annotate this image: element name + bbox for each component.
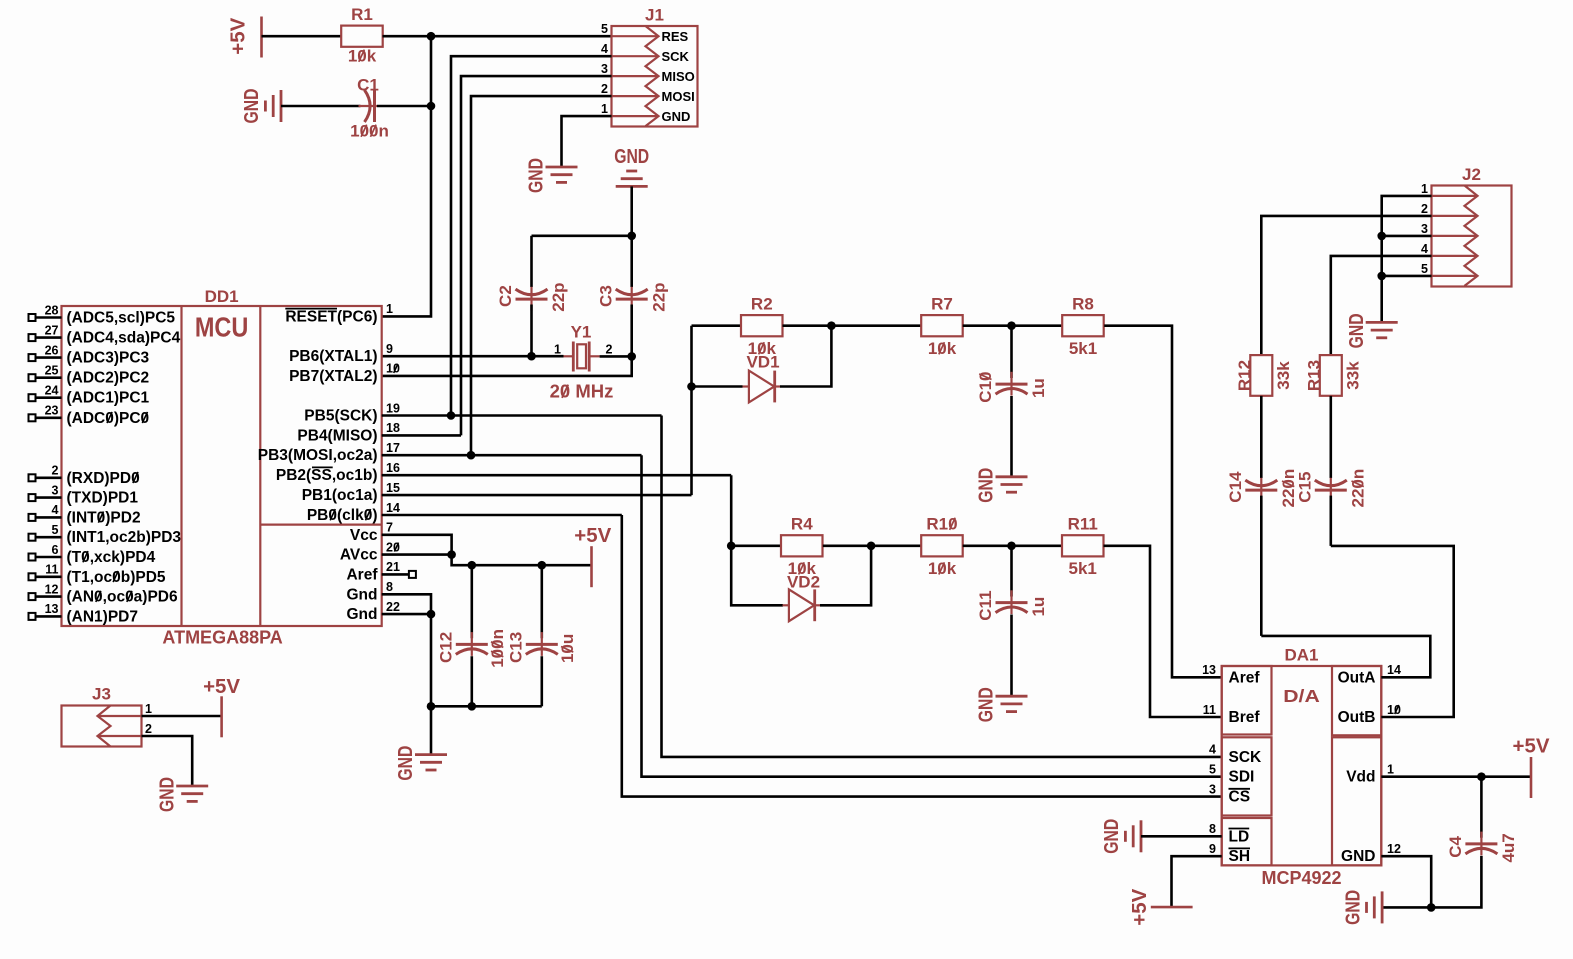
ground GND (LD) (1125, 820, 1141, 852)
svg-text:(AN1)PD7: (AN1)PD7 (67, 608, 138, 625)
svg-text:(T1,oc0b)PD5: (T1,oc0b)PD5 (67, 569, 166, 586)
junction Gnd (427, 610, 436, 619)
svg-text:SDI: SDI (1229, 769, 1255, 786)
svg-text:SH: SH (1229, 848, 1251, 865)
svg-text:R8: R8 (1072, 295, 1094, 314)
svg-text:4: 4 (1421, 242, 1428, 256)
svg-text:D/A: D/A (1283, 686, 1320, 706)
svg-text:C15: C15 (1295, 472, 1314, 503)
junction Y1/C3/XTAL2 (627, 352, 636, 361)
junction C4 (1477, 772, 1486, 781)
svg-text:1u: 1u (1029, 597, 1048, 617)
resistor R11 5k1 (1062, 535, 1104, 556)
junction rail left (427, 702, 436, 711)
capacitor C3 22p (631, 287, 633, 311)
wire OutB to C15 (1331, 546, 1454, 717)
power +5V (R1 input) (260, 17, 263, 58)
wire C12 column top (470, 565, 473, 638)
capacitor C11 1u (1010, 590, 1012, 614)
wire PB1 to R2/VD1 column (690, 326, 693, 495)
svg-text:4u7: 4u7 (1499, 833, 1518, 862)
svg-text:3: 3 (601, 62, 608, 76)
svg-text:GND: GND (156, 777, 178, 812)
diode VD2 (783, 604, 790, 606)
svg-text:GND: GND (976, 687, 998, 722)
wire J2 pin3 (1382, 235, 1432, 238)
ground GND (J1 pin1) (546, 167, 578, 182)
wire C11 bottom (1010, 615, 1013, 697)
svg-text:C1: C1 (357, 76, 379, 95)
wire C15 bottom (1330, 496, 1333, 546)
capacitor C13 10u (541, 632, 543, 656)
power +5V (J3) (220, 696, 223, 737)
resistor R13 33k (1320, 355, 1342, 396)
svg-text:9: 9 (1209, 842, 1216, 856)
junction C11 (1007, 542, 1016, 551)
MCU pin 12 (AN0,oc0a)PD6 stub (36, 595, 62, 598)
wire node to PB7(XTAL2) (382, 356, 632, 376)
wire C1 to RESET column (377, 105, 431, 108)
svg-text:Vcc: Vcc (350, 527, 378, 544)
capacitor C2 22p (530, 287, 532, 311)
wire ground rail (431, 614, 542, 706)
svg-text:(ADC1)PC1: (ADC1)PC1 (67, 390, 150, 407)
svg-text:2: 2 (145, 722, 152, 736)
svg-text:26: 26 (45, 343, 59, 357)
svg-text:C13: C13 (506, 632, 525, 663)
ground GND (J2) (1366, 322, 1398, 337)
svg-text:22: 22 (386, 600, 400, 614)
svg-text:14: 14 (386, 501, 400, 515)
svg-text:(ADC0)PC0: (ADC0)PC0 (67, 410, 150, 427)
wire PB5(SCK) row (382, 414, 662, 417)
svg-text:20 MHz: 20 MHz (550, 381, 614, 402)
svg-text:14: 14 (1387, 663, 1401, 677)
MCU pin 13 (AN1)PD7 stub (36, 615, 62, 618)
power +5V (SH) (1151, 906, 1193, 909)
ground GND (C10) (996, 477, 1028, 492)
resistor R4 10k (781, 535, 823, 556)
svg-text:GND: GND (526, 158, 548, 193)
junction MOSI (467, 451, 476, 460)
wire R8 to DA1 Aref (1104, 326, 1222, 678)
svg-text:GND: GND (976, 468, 998, 503)
svg-text:8: 8 (386, 580, 393, 594)
svg-text:R7: R7 (931, 295, 953, 314)
svg-text:13: 13 (45, 602, 59, 616)
resistor R12 33k (1250, 355, 1272, 396)
svg-text:27: 27 (45, 323, 59, 337)
junction SCK (447, 411, 456, 420)
svg-text:33k: 33k (1344, 361, 1363, 390)
svg-text:4: 4 (1209, 743, 1216, 757)
wire VD2 cathode (820, 546, 871, 606)
svg-text:1: 1 (1387, 763, 1394, 777)
wire PB3(MOSI) row (382, 454, 642, 457)
svg-text:MCP4922: MCP4922 (1261, 868, 1341, 888)
wire J2 pin2 to R12 (1261, 216, 1431, 355)
svg-text:(ADC3)PC3: (ADC3)PC3 (67, 350, 150, 367)
svg-text:1: 1 (1421, 182, 1428, 196)
wire C2 to XTAL1 (530, 305, 533, 357)
junction C12 top (468, 561, 477, 570)
svg-text:100n: 100n (488, 629, 507, 668)
resistor R10 10k (921, 535, 963, 556)
wire C3 to node (630, 305, 633, 357)
svg-text:AVcc: AVcc (340, 547, 378, 564)
svg-text:SCK: SCK (662, 49, 690, 64)
svg-text:+5V: +5V (574, 525, 612, 547)
wire R4 to R10 (823, 544, 922, 547)
svg-text:(AN0,oc0a)PD6: (AN0,oc0a)PD6 (67, 589, 178, 606)
svg-text:R4: R4 (791, 515, 813, 534)
wire R10 to R11 (963, 544, 1062, 547)
svg-text:22p: 22p (649, 282, 668, 311)
svg-text:11: 11 (1203, 703, 1216, 717)
wire J2 pin1/3/5 to ground (1382, 196, 1432, 323)
wire RESET column to MCU pin1 (382, 36, 431, 316)
svg-text:R2: R2 (751, 295, 773, 314)
svg-text:SCK: SCK (1229, 749, 1263, 766)
svg-text:GND: GND (662, 109, 691, 124)
svg-text:GND: GND (1342, 890, 1364, 925)
svg-text:5k1: 5k1 (1069, 559, 1097, 578)
svg-text:Gnd: Gnd (347, 586, 378, 603)
wire J3 pin1 to +5V (142, 715, 222, 718)
svg-text:PB4(MISO): PB4(MISO) (297, 427, 377, 444)
ground GND (J3) (176, 786, 208, 801)
svg-text:Gnd: Gnd (347, 606, 378, 623)
svg-text:(RXD)PD0: (RXD)PD0 (67, 470, 140, 487)
capacitor C14 220n (1260, 478, 1262, 502)
svg-text:MOSI: MOSI (662, 89, 695, 104)
svg-text:Vdd: Vdd (1346, 769, 1375, 786)
svg-text:12: 12 (1387, 842, 1401, 856)
wire R1 to J1 pin5 / node RESET (383, 35, 612, 38)
svg-text:9: 9 (386, 342, 393, 356)
svg-text:R12: R12 (1235, 360, 1254, 391)
svg-text:J3: J3 (92, 685, 111, 704)
wire Gnd pin22 (382, 613, 431, 616)
svg-text:MCU: MCU (195, 311, 249, 342)
svg-text:+5V: +5V (203, 676, 241, 698)
MCU pin 24 (ADC1)PC1 stub (36, 396, 62, 399)
junction pin3 (1377, 232, 1386, 241)
wire PB0(clk0) row (382, 514, 622, 517)
svg-text:GND: GND (395, 746, 417, 781)
wire C4 bottom (1382, 856, 1481, 908)
svg-text:GND: GND (614, 146, 649, 168)
MCU pin 26 (ADC3)PC3 stub (36, 356, 62, 359)
wire Y1 pin2 to C3 (600, 355, 632, 358)
svg-text:OutB: OutB (1338, 709, 1376, 726)
wire R11 to DA1 Bref (1104, 546, 1222, 717)
svg-text:RES: RES (662, 29, 689, 44)
junction C13 top (538, 561, 547, 570)
svg-text:19: 19 (386, 401, 400, 415)
svg-text:PB5(SCK): PB5(SCK) (304, 408, 377, 425)
svg-text:LD: LD (1229, 828, 1250, 845)
svg-text:PB2(SS,oc1b): PB2(SS,oc1b) (276, 467, 378, 484)
wire C11 top (1010, 546, 1013, 597)
svg-text:18: 18 (386, 421, 400, 435)
junction rail/C3 (627, 232, 636, 241)
ground GND (MCU) (415, 755, 447, 770)
svg-text:PB3(MOSI,oc2a): PB3(MOSI,oc2a) (258, 447, 378, 464)
wire PB4(MISO) row (382, 434, 461, 437)
wire Vcc (382, 535, 452, 555)
svg-text:(INT1,oc2b)PD3: (INT1,oc2b)PD3 (67, 529, 182, 546)
pin Aref stub (382, 573, 409, 576)
svg-text:C4: C4 (1446, 835, 1465, 857)
junction C1/RESET (427, 102, 436, 111)
capacitor C1 100n (359, 105, 378, 107)
MCU pin 23 (ADC0)PC0 stub (36, 416, 62, 419)
resistor R2 10k (741, 315, 783, 336)
connector J2 (1432, 186, 1512, 287)
svg-text:C14: C14 (1226, 471, 1245, 503)
junction C10 (1007, 321, 1016, 330)
svg-text:1u: 1u (1029, 378, 1048, 398)
svg-text:GND: GND (241, 89, 263, 124)
wire R2 to R7 (783, 324, 922, 327)
junction R1/RESET (427, 32, 436, 41)
wire PB6(XTAL1) to Y1 pin1 (382, 355, 564, 358)
svg-text:1: 1 (554, 343, 561, 357)
svg-text:GND: GND (1101, 819, 1123, 854)
ground GND (C11) (996, 696, 1028, 711)
wire GND to rail (630, 186, 633, 235)
wire J1 pin1 to ground (562, 116, 612, 167)
capacitor C10 1u (1010, 372, 1012, 396)
wire PB2(SS) row (382, 474, 732, 477)
svg-text:5k1: 5k1 (1069, 339, 1097, 358)
power +5V (Vdd) (1530, 757, 1533, 798)
svg-text:(ADC4,sda)PC4: (ADC4,sda)PC4 (67, 330, 181, 347)
crystal Y1 20 MHz (564, 355, 574, 357)
wire rail to C2 (530, 236, 533, 287)
svg-text:3: 3 (1209, 782, 1216, 796)
MCU pin 27 (ADC4,sda)PC4 stub (36, 336, 62, 339)
svg-text:(ADC2)PC2: (ADC2)PC2 (67, 370, 150, 387)
svg-text:J2: J2 (1462, 165, 1481, 184)
svg-text:22p: 22p (549, 282, 568, 311)
svg-text:+5V: +5V (228, 17, 250, 55)
wire J3 pin2 to ground (142, 736, 193, 786)
svg-text:1: 1 (601, 102, 608, 116)
wire C10 top (1010, 326, 1013, 378)
svg-text:DA1: DA1 (1284, 646, 1318, 665)
capacitor C4 4u7 (1480, 832, 1482, 856)
svg-text:2: 2 (606, 343, 613, 357)
junction XTAL1 (527, 352, 536, 361)
wire OutA to C14 (1261, 636, 1430, 677)
svg-text:28: 28 (45, 303, 59, 317)
overline SS (312, 466, 333, 468)
power +5V (MCU) (590, 546, 593, 587)
svg-text:C12: C12 (436, 632, 455, 663)
MCU pin 3 (TXD)PD1 stub (36, 496, 62, 499)
svg-text:11: 11 (45, 563, 58, 577)
svg-text:15: 15 (386, 481, 400, 495)
svg-text:PB7(XTAL2): PB7(XTAL2) (289, 368, 377, 385)
junction VD1 anode (687, 382, 696, 391)
wire VD1 cathode (780, 326, 831, 387)
svg-text:CS: CS (1229, 789, 1251, 806)
wire Vcc rail to +5V (452, 555, 592, 566)
junction rail C12 (468, 702, 477, 711)
resistor R8 5k1 (1062, 315, 1104, 336)
svg-text:VD2: VD2 (787, 572, 820, 591)
svg-text:Bref: Bref (1229, 709, 1261, 726)
wire Gnd pin8 (382, 594, 431, 614)
svg-text:5: 5 (601, 22, 608, 36)
svg-text:R11: R11 (1068, 515, 1098, 534)
svg-text:C11: C11 (976, 590, 995, 620)
svg-text:(T0,xck)PD4: (T0,xck)PD4 (67, 549, 156, 566)
wire C13 column bottom (540, 656, 543, 706)
wire R7 to R8 (963, 324, 1062, 327)
svg-text:MISO: MISO (662, 69, 695, 84)
wire PB5 to DA1 SCK (662, 416, 1222, 757)
svg-text:4: 4 (52, 503, 59, 517)
diode VD1 (692, 385, 743, 388)
junction pin5 (1377, 272, 1386, 281)
svg-text:10u: 10u (558, 634, 577, 663)
wire to R2 (692, 324, 742, 327)
svg-text:5: 5 (1421, 262, 1428, 276)
wire C14 bottom (1260, 496, 1263, 636)
svg-text:GND: GND (1341, 848, 1375, 865)
MCU pin 28 (ADC5,scl)PC5 stub (36, 316, 62, 319)
resistor R7 10k (921, 315, 963, 336)
wire C3 column (630, 236, 633, 287)
svg-text:5: 5 (52, 523, 59, 537)
svg-text:+5V: +5V (1129, 888, 1151, 926)
ground GND (crystal rail) (616, 171, 648, 186)
wire PB2 to R4/VD2 column (731, 475, 783, 605)
svg-text:4: 4 (601, 42, 608, 56)
svg-text:(TXD)PD1: (TXD)PD1 (67, 490, 139, 507)
connector J1 (612, 26, 698, 127)
svg-text:OutA: OutA (1338, 669, 1376, 686)
svg-text:PB1(oc1a): PB1(oc1a) (302, 487, 378, 504)
wire J1 pin2 to PB3(MOSI) (471, 96, 612, 455)
junction Vcc/AVcc (447, 550, 456, 559)
wire PB3 to DA1 SDI (642, 455, 1222, 777)
wire SH to +5V (1172, 856, 1222, 907)
wire C13 column top (540, 565, 543, 638)
svg-text:1: 1 (386, 302, 393, 316)
capacitor C15 220n (1330, 478, 1332, 502)
svg-text:12: 12 (45, 582, 59, 596)
svg-text:100n: 100n (350, 122, 389, 141)
svg-text:R13: R13 (1304, 360, 1323, 391)
MCU pin 5 (INT1,oc2b)PD3 stub (36, 536, 62, 539)
MCU pin 11 (T1,oc0b)PD5 stub (36, 575, 62, 578)
ground GND (DA1) (1367, 891, 1383, 923)
junction R4/VD2 out (867, 542, 876, 551)
DAC DA1 box (1222, 666, 1382, 865)
wire to R4 (731, 544, 781, 547)
svg-text:C2: C2 (496, 285, 515, 307)
overline RESET (285, 308, 337, 310)
svg-text:1: 1 (145, 702, 152, 716)
MCU pin 4 (INT0)PD2 stub (36, 516, 62, 519)
MCU pin 2 (RXD)PD0 stub (36, 476, 62, 479)
wire J1 pin4 to PB5(SCK) (451, 56, 612, 415)
wire GND pin12 (1381, 856, 1431, 907)
junction R2/VD1 out (827, 321, 836, 330)
svg-text:24: 24 (45, 384, 59, 398)
MCU pin 25 (ADC2)PC2 stub (36, 376, 62, 379)
svg-text:2: 2 (52, 464, 59, 478)
wire C10 bottom (1010, 396, 1013, 477)
svg-text:23: 23 (45, 404, 59, 418)
wire rail C2 to C3 (532, 235, 632, 238)
MCU DD1 box (62, 306, 382, 626)
svg-text:PB6(XTAL1): PB6(XTAL1) (289, 348, 377, 365)
svg-text:ATMEGA88PA: ATMEGA88PA (162, 628, 282, 648)
wire PB0 to DA1 CS (622, 515, 1222, 797)
svg-text:7: 7 (386, 521, 393, 535)
svg-text:VD1: VD1 (746, 353, 779, 372)
svg-text:16: 16 (386, 461, 400, 475)
svg-text:13: 13 (1202, 663, 1216, 677)
wire +5V to R1 (262, 35, 342, 38)
wire C4 top (1480, 777, 1483, 838)
svg-text:+5V: +5V (1513, 736, 1551, 758)
junction GND rail (1427, 903, 1436, 912)
ground GND (C1) (265, 90, 281, 122)
svg-text:Y1: Y1 (571, 323, 592, 342)
wire PB1(oc1a) row (382, 494, 692, 497)
junction R4 input (727, 542, 736, 551)
svg-text:10: 10 (386, 362, 400, 376)
wire J2 pin5 (1382, 275, 1432, 278)
svg-text:25: 25 (45, 364, 59, 378)
wire AVcc (382, 553, 452, 556)
wire GND to C1 (281, 105, 361, 108)
svg-text:RESET(PC6): RESET(PC6) (285, 308, 377, 325)
svg-text:33k: 33k (1274, 361, 1293, 390)
svg-text:DD1: DD1 (205, 287, 239, 306)
svg-text:10: 10 (1387, 703, 1401, 717)
svg-text:J1: J1 (645, 6, 664, 25)
svg-text:5: 5 (1209, 763, 1216, 777)
svg-text:6: 6 (52, 543, 59, 557)
svg-text:GND: GND (1346, 313, 1368, 348)
MCU pin 6 (T0,xck)PD4 stub (36, 556, 62, 559)
svg-text:3: 3 (1421, 222, 1428, 236)
svg-text:2: 2 (1421, 202, 1428, 216)
wire R12 to C14 (1260, 396, 1263, 478)
svg-text:220n: 220n (1348, 469, 1367, 508)
svg-text:21: 21 (386, 560, 400, 574)
wire R13 to C15 (1330, 396, 1333, 478)
svg-text:Aref: Aref (1229, 669, 1261, 686)
wire Vdd to +5V (1381, 775, 1531, 778)
svg-text:17: 17 (386, 441, 400, 455)
wire J1 pin3 to PB4(MISO) (461, 76, 612, 435)
wire C12 column bottom (470, 656, 473, 706)
svg-text:3: 3 (52, 483, 59, 497)
resistor R1 10k (341, 26, 383, 47)
svg-text:8: 8 (1209, 822, 1216, 836)
wire J2 pin4 to R13 (1331, 256, 1432, 355)
svg-text:2: 2 (601, 82, 608, 96)
wire rail to GND (430, 706, 433, 754)
